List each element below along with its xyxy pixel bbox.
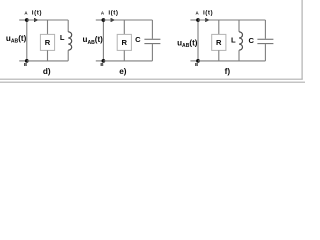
wire capacitor C (f) to bottom bbox=[264, 44, 266, 61]
svg-text:L: L bbox=[231, 35, 236, 44]
wire top to resistor R (d) bbox=[47, 20, 49, 34]
wire left rail A to B (circuit f) bbox=[197, 20, 199, 61]
wire left rail A to B (circuit e) bbox=[102, 20, 104, 61]
svg-text:C: C bbox=[135, 35, 141, 44]
node B terminal lead (circuit f) bbox=[190, 60, 198, 62]
wire bottom rail circuit e bbox=[103, 60, 152, 62]
node A junction dot (circuit d) bbox=[25, 18, 29, 22]
capacitor C (e) bottom plate bbox=[144, 43, 160, 45]
node A terminal lead (circuit e) bbox=[96, 19, 104, 21]
capacitor C (e) top plate bbox=[144, 38, 160, 40]
svg-text:d): d) bbox=[43, 67, 51, 76]
wire bottom rail circuit d bbox=[27, 60, 68, 62]
wire top rail circuit e bbox=[103, 19, 152, 21]
resistor R (f) body bbox=[212, 34, 226, 50]
node B junction dot (circuit e) bbox=[102, 59, 106, 63]
wire top to capacitor C (f) bbox=[264, 20, 266, 39]
wire top rail circuit f bbox=[198, 19, 265, 21]
wire bottom rail circuit f bbox=[198, 60, 265, 62]
wire inductor L (d) to bottom bbox=[67, 50, 69, 61]
svg-text:i(t): i(t) bbox=[108, 9, 118, 16]
svg-text:B: B bbox=[24, 62, 27, 67]
page rule below frame bbox=[0, 81, 305, 83]
svg-text:L: L bbox=[60, 33, 65, 42]
wire top to resistor R (f) bbox=[218, 20, 220, 34]
svg-text:R: R bbox=[122, 38, 128, 47]
capacitor C (f) bottom plate bbox=[257, 43, 273, 45]
inductor L (f) coil bbox=[239, 32, 243, 50]
node B terminal lead (circuit d) bbox=[19, 60, 27, 62]
wire resistor R (e) to bottom bbox=[123, 50, 125, 61]
svg-text:f): f) bbox=[225, 67, 231, 76]
capacitor C (f) top plate bbox=[257, 38, 273, 40]
svg-text:B: B bbox=[100, 62, 103, 67]
node A terminal lead (circuit d) bbox=[19, 19, 27, 21]
node A terminal lead (circuit f) bbox=[190, 19, 198, 21]
svg-text:e): e) bbox=[119, 67, 127, 76]
wire capacitor C (e) to bottom bbox=[151, 44, 153, 61]
inductor L (d) coil bbox=[68, 32, 72, 50]
frame bottom border line bbox=[0, 78, 303, 80]
wire top to capacitor C (e) bbox=[151, 20, 153, 39]
svg-text:R: R bbox=[45, 38, 51, 47]
wire top to inductor L (f) bbox=[238, 20, 240, 32]
node A junction dot (circuit f) bbox=[196, 18, 200, 22]
wire inductor L (f) to bottom bbox=[238, 50, 240, 61]
frame right border line bbox=[301, 0, 303, 80]
wire top to inductor L (d) bbox=[67, 20, 69, 32]
wire resistor R (f) to bottom bbox=[218, 50, 220, 61]
node B junction dot (circuit f) bbox=[196, 59, 200, 63]
svg-text:i(t): i(t) bbox=[32, 9, 42, 16]
current arrow i(t) (circuit f) bbox=[205, 18, 210, 22]
svg-text:i(t): i(t) bbox=[203, 9, 213, 16]
current arrow i(t) (circuit e) bbox=[111, 18, 116, 22]
wire resistor R (d) to bottom bbox=[47, 50, 49, 61]
current arrow i(t) (circuit d) bbox=[34, 18, 39, 22]
resistor R (d) body bbox=[40, 34, 54, 50]
node B junction dot (circuit d) bbox=[25, 59, 29, 63]
svg-text:B: B bbox=[195, 62, 198, 67]
svg-text:C: C bbox=[248, 36, 254, 45]
resistor R (e) body bbox=[117, 34, 131, 50]
wire left rail A to B (circuit d) bbox=[26, 20, 28, 61]
wire top rail circuit d bbox=[27, 19, 68, 21]
node B terminal lead (circuit e) bbox=[96, 60, 104, 62]
wire top to resistor R (e) bbox=[123, 20, 125, 34]
node A junction dot (circuit e) bbox=[102, 18, 106, 22]
svg-text:R: R bbox=[216, 38, 222, 47]
